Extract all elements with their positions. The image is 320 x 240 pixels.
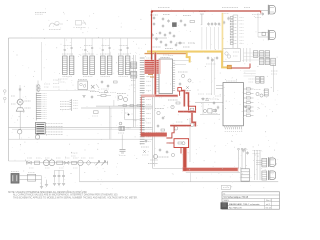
wire bus y108 — [81, 107, 153, 109]
components below red band — [143, 150, 146, 153]
wire osc verticals — [243, 48, 245, 62]
wire red vertical mid — [154, 53, 156, 96]
small block right of pairs 1 — [131, 62, 137, 69]
component left of U20 b — [210, 98, 218, 100]
svg-text:5.6 Schematique 73C15: 5.6 Schematique 73C15 — [224, 196, 249, 199]
block before jack 1 — [262, 158, 267, 167]
wire br verticals — [253, 150, 255, 180]
label chain — [25, 100, 31, 102]
wire chain drop — [79, 166, 81, 182]
ic U20 — [223, 83, 243, 126]
wire red drops halo — [181, 91, 184, 107]
component small x93 — [94, 111, 99, 114]
wire U10 right 1 — [175, 60, 190, 62]
component red box highlight — [189, 106, 196, 112]
wire U10 right 2 — [175, 64, 186, 66]
wire red jog — [166, 126, 174, 138]
wire vertical x135 — [134, 55, 136, 127]
connector jack br 2 — [268, 170, 270, 180]
wire orange parallel — [145, 53, 188, 54]
resistor-network U group 4 — [119, 56, 124, 75]
block mid right pair — [256, 77, 260, 84]
discrete under staircase — [159, 148, 161, 150]
ground g2 — [45, 184, 48, 186]
capacitor row mid right — [207, 56, 209, 58]
wire connector top lead — [37, 81, 39, 93]
wire drop low — [19, 134, 21, 139]
ground g1 — [40, 186, 43, 188]
wire gray shadow v — [189, 173, 191, 182]
label top-left tiny text — [35, 12, 46, 14]
wire red thick vertical — [183, 148, 186, 171]
svg-text:Rev C: Rev C — [266, 200, 272, 202]
wire red zigzag down — [192, 112, 195, 126]
wire ladder top — [233, 14, 238, 16]
wire red h y95 halo — [141, 95, 178, 98]
discrete under pairs a — [101, 80, 103, 82]
connector col x71 — [71, 99, 73, 111]
wire v x113 — [113, 100, 115, 106]
wire red thick bottom — [183, 168, 238, 171]
ic grid row1 a — [253, 51, 258, 58]
wire red elbow y96 — [141, 95, 155, 97]
ic U10 — [159, 59, 173, 94]
wire red bottom halo — [182, 167, 239, 172]
component at red end — [260, 11, 262, 14]
capacitor C below — [91, 95, 93, 97]
wire red h y111 — [178, 111, 196, 113]
component on bus cluster — [119, 122, 122, 125]
junction red corner — [151, 11, 153, 13]
wire red h y125 halo — [170, 124, 191, 126]
label under cluster — [58, 78, 68, 80]
wire bus y127 — [9, 126, 153, 128]
resistor-network U group 1 — [63, 56, 68, 75]
connector CN2 lower block — [35, 123, 45, 135]
svg-text:MAINBOARD 738LC schematic: MAINBOARD 738LC schematic — [229, 203, 261, 206]
wire drop gnd1 — [41, 176, 43, 187]
connector J1 phono — [267, 5, 269, 15]
component in red box — [190, 108, 194, 110]
component left of U20 a — [213, 101, 215, 103]
discrete under pairs b — [105, 90, 108, 93]
block near J2 — [262, 32, 265, 35]
wire elbow to red — [153, 167, 185, 169]
label above yellow — [176, 42, 185, 44]
resistor ladder column — [232, 15, 234, 48]
wire red down — [180, 148, 182, 154]
label above cluster — [253, 150, 262, 152]
wire drop mid — [19, 111, 21, 129]
indicator circle CN2 — [35, 135, 39, 139]
wire red vertical mid halo — [154, 53, 156, 96]
diode pair D group — [91, 85, 95, 89]
wire h y119 — [125, 119, 145, 121]
wire drop u20 a — [238, 150, 240, 169]
wire top bus horizontal — [9, 37, 168, 39]
wire red h y95 — [155, 95, 177, 97]
wire vertical pair x154 — [154, 97, 156, 167]
scan speckle texture — [182, 8, 185, 11]
junction dot — [128, 114, 130, 116]
wire red zigzag halo — [192, 112, 195, 126]
wire bottom left y161 — [9, 160, 31, 162]
svg-text:THIS SCHEMATIC APPLIES TO MODE: THIS SCHEMATIC APPLIES TO MODELS WITH SE… — [13, 197, 138, 200]
label right col — [271, 70, 278, 72]
wire drop gnd2 — [46, 180, 48, 185]
oscillator box X1 — [78, 81, 88, 90]
wire red pin bars — [144, 60, 161, 74]
capacitor x158 y126 — [157, 124, 159, 126]
wire left frame vertical — [8, 38, 10, 161]
component orange marks — [148, 74, 153, 76]
label bottom left marks — [71, 152, 78, 154]
wire v x124 — [123, 108, 125, 120]
label row y94 — [198, 93, 204, 95]
wire yellow vertical — [221, 51, 223, 68]
capacitor pair above ladder — [228, 17, 230, 19]
wire to J2 — [258, 32, 268, 34]
component group u20 left — [204, 110, 207, 113]
power inlet PJ1 — [11, 174, 19, 184]
component orange in yellow net — [227, 65, 231, 69]
wire vertical pair x152 — [152, 54, 154, 168]
svg-text:No 73472-70: No 73472-70 — [229, 208, 242, 210]
svg-text:MAIN: MAIN — [224, 199, 230, 202]
label pin table — [46, 123, 63, 125]
filter box FL1 — [28, 174, 36, 181]
wire bus y139 — [9, 138, 153, 140]
module box Y1 — [223, 49, 241, 62]
buzzer LS1 — [16, 108, 24, 111]
wire yellow vertical upper — [222, 13, 224, 51]
wire red thick band — [141, 133, 167, 137]
component stamp group B — [76, 21, 82, 26]
component lower left mid — [120, 148, 126, 150]
label power — [11, 170, 19, 172]
wires right grid — [244, 52, 271, 54]
wire drop u20 b — [241, 150, 243, 169]
wire drop u20 c — [244, 150, 246, 169]
polarized cap left edge — [4, 90, 7, 93]
label U20 — [226, 80, 237, 82]
cluster left of red band — [154, 155, 158, 159]
transistor Q group — [119, 96, 123, 100]
label text block mid — [60, 101, 70, 103]
ic grid row2 c — [271, 58, 276, 65]
motor M1 circle — [17, 99, 23, 105]
wire yellow horizontal — [147, 51, 223, 53]
wire bus y129 — [12, 128, 153, 130]
grounds right — [244, 105, 247, 107]
discrete near staircase 1 — [157, 111, 160, 114]
capacitor on drop — [19, 88, 21, 90]
label left small — [11, 95, 15, 97]
wire red right vertical — [249, 64, 251, 69]
block before jack 2 — [262, 171, 267, 180]
svg-text:NOTE: UNLESS OTHERWISE SPEC: NOTE: UNLESS OTHERWISE SPECIFIED ALL RES… — [8, 191, 88, 194]
ic grid row1 b — [259, 51, 264, 58]
wire mid right x214 — [213, 57, 215, 95]
resistor-network U group 2 — [83, 56, 88, 75]
ic grid row2 b — [265, 58, 270, 64]
wire v x122 — [121, 135, 123, 150]
capacitor cluster top middle — [153, 16, 155, 18]
component cluster right of U10 — [181, 74, 184, 77]
connector J2 phono — [267, 30, 269, 40]
resistor-network U group 3 — [101, 56, 106, 75]
resistor R row mid — [101, 95, 106, 97]
wire red right elbow — [231, 67, 250, 69]
svg-text:Sh 1/1: Sh 1/1 — [266, 208, 273, 210]
wire yellow stub — [221, 66, 227, 68]
wire red drop b — [186, 93, 189, 107]
wire yellow branch v — [186, 53, 188, 58]
component circle mid red — [174, 127, 178, 131]
wire mid right x211 — [211, 57, 213, 95]
wire red h y125 — [170, 125, 191, 127]
transformer circles — [37, 85, 40, 88]
wire red vertical x141 — [140, 97, 142, 134]
component red box low — [174, 139, 189, 148]
resistor chain to connector — [118, 105, 143, 107]
wire v x41 upper — [41, 42, 43, 81]
label small col x53 — [53, 79, 61, 81]
ic grid row1 c — [265, 51, 270, 58]
wire drop x20 — [19, 85, 21, 99]
ground below osc — [82, 95, 85, 97]
label top tiny row — [158, 7, 170, 9]
svg-text:ALL CAPACITANCE VALUES ARE IN: ALL CAPACITANCE VALUES ARE IN MICROFARAD… — [13, 194, 118, 197]
lamp DS1 — [18, 130, 22, 134]
label U10 — [161, 57, 170, 59]
wire red drop a — [181, 91, 184, 107]
power entry chain — [26, 162, 108, 164]
wire bus y106 — [96, 105, 153, 107]
connector CN5 pin column — [140, 57, 145, 59]
wire red link y143 — [167, 142, 175, 144]
wire gray shadow h — [186, 172, 240, 174]
wire long y182 — [80, 181, 279, 183]
wire red top horizontal — [152, 10, 261, 12]
wire gray x190 vertical — [189, 118, 191, 162]
component stamp group A — [49, 23, 59, 27]
continuation mark box — [222, 185, 231, 189]
wire red left vertical — [151, 11, 153, 61]
wires to mid right pair — [244, 70, 256, 72]
capacitor pair above drops — [243, 149, 245, 151]
label near red end — [252, 14, 261, 16]
title block — [222, 192, 280, 209]
wire red band halo — [141, 132, 167, 137]
small block right of pairs 2 — [131, 72, 137, 79]
discrete near staircase 2 — [171, 105, 174, 108]
wire to J1 — [261, 10, 268, 12]
cluster right y90 — [256, 92, 259, 95]
label CN5 col — [131, 61, 136, 63]
wire yellow branch v2 — [189, 56, 191, 62]
wire drop pair x110 b — [110, 108, 112, 139]
connector jack br 1 — [268, 157, 270, 167]
wire red h y111 halo — [178, 110, 196, 112]
ic grid row2 a — [259, 58, 264, 64]
wire inlet 1 — [19, 175, 42, 177]
wire red thick vertical halo — [182, 148, 187, 171]
wire drop pair x110 a — [109, 106, 111, 139]
capacitor bank — [54, 170, 56, 175]
label mid right pair — [249, 78, 255, 80]
connector CN2 upper pins — [35, 93, 37, 121]
wire inlet 2 — [19, 179, 42, 181]
wire vertical x133 — [133, 55, 135, 127]
wire br horizontals — [256, 160, 262, 162]
wire yellow branch h — [186, 56, 191, 58]
wire gray y102 — [195, 101, 223, 103]
connector block bottom — [241, 169, 250, 181]
wire connector branch — [38, 90, 95, 92]
component red small — [178, 88, 182, 91]
component in red box2 — [178, 142, 182, 144]
wire right mid x273 — [272, 64, 274, 92]
